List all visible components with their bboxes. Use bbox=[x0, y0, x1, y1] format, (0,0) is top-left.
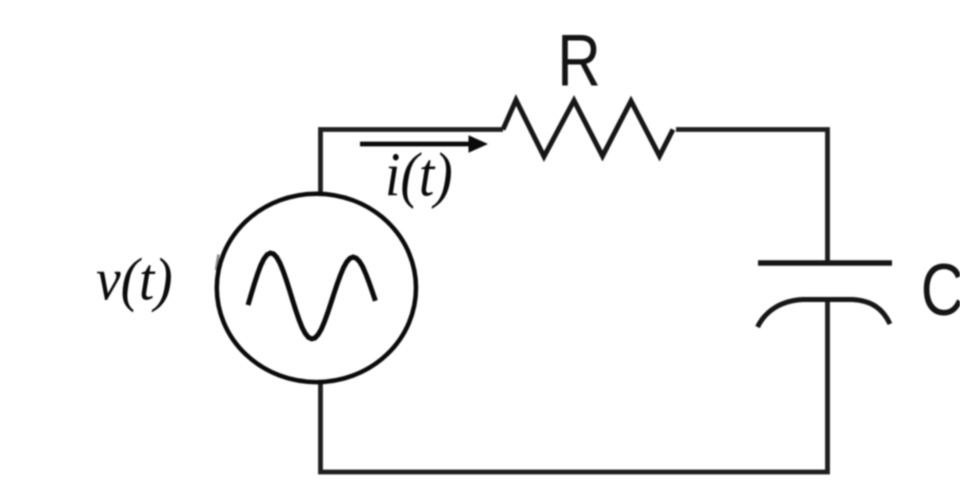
svg-text:i(t): i(t) bbox=[385, 139, 453, 209]
svg-text:v(t): v(t) bbox=[96, 247, 173, 313]
svg-text:C: C bbox=[921, 250, 960, 331]
svg-text:R: R bbox=[557, 20, 601, 102]
